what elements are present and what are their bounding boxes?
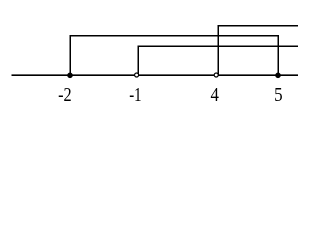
interval bracket (-1,inf): top bar xyxy=(138,45,299,47)
svg-text:5: 5 xyxy=(274,84,283,107)
closed endpoint at -2 xyxy=(67,73,73,79)
interval bracket [-2,5]: riser at 5 xyxy=(277,36,279,75)
svg-text:-1: -1 xyxy=(129,83,141,106)
open endpoint at 4 xyxy=(214,73,218,77)
interval bracket [-2,5]: riser at -2 xyxy=(69,36,71,75)
svg-text:-2: -2 xyxy=(58,83,72,105)
interval bracket [-2,5]: top bar xyxy=(70,35,280,37)
open endpoint at -1 xyxy=(135,73,139,77)
interval bracket (4,inf): top bar xyxy=(218,25,299,27)
svg-text:4: 4 xyxy=(211,84,219,106)
closed endpoint at 5 xyxy=(275,73,281,79)
interval bracket (4,inf): riser at 4 xyxy=(217,26,219,75)
interval bracket (-1,inf): riser at -1 xyxy=(137,46,139,75)
number line xyxy=(12,74,299,76)
